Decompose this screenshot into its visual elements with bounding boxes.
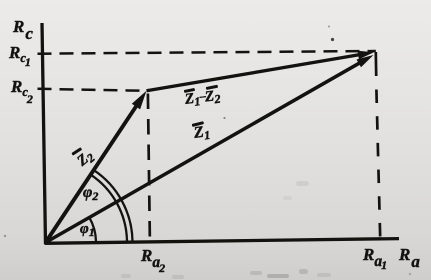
horizontal axis Ra [45, 239, 400, 244]
label Rc2 [11, 78, 33, 105]
vector Z2 [46, 102, 140, 243]
scan speckles (decorative) [328, 26, 330, 28]
dashed line Ra2 level [148, 94, 150, 243]
label phi2 [83, 185, 98, 202]
label Z1-Z2 [184, 88, 221, 109]
label Ra2 [141, 247, 165, 274]
dashed line Ra1 level (solid start) [374, 52, 377, 76]
label Ra [399, 246, 420, 270]
label Rc1 [9, 44, 31, 68]
vertical axis Rc [42, 23, 46, 244]
overbar of Z1 label [192, 121, 204, 126]
label Rc [13, 18, 33, 42]
label Z2 (rotated along vector) [75, 148, 97, 170]
vector Z1 [46, 61, 363, 242]
label Z1 [193, 124, 211, 143]
overbar of first Z [184, 88, 195, 93]
angle arc phi2 (double) [91, 175, 127, 242]
label Ra1 [363, 246, 387, 271]
label phi1 [80, 222, 95, 238]
angle arc phi1 [89, 217, 96, 241]
dashed line Rc1 level [38, 51, 376, 54]
vector Z1-Z2 [147, 54, 363, 91]
overbar of Z2 label [71, 147, 81, 155]
overbar of second Z [206, 85, 218, 90]
dashed line Rc2 level [38, 89, 147, 91]
